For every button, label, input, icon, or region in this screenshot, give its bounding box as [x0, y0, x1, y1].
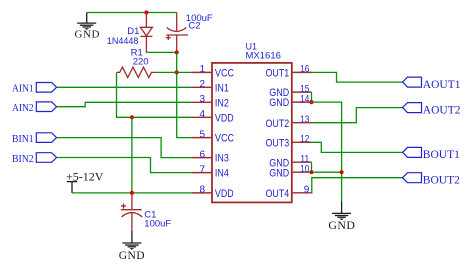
wire	[87, 12, 177, 14]
svg-text:VCC: VCC	[215, 133, 234, 145]
svg-text:1N4448: 1N4448	[107, 36, 138, 47]
pin 9 OUT4	[292, 192, 312, 194]
svg-text:VCC: VCC	[215, 68, 234, 80]
wire	[312, 178, 403, 193]
resistor R1 220	[117, 67, 157, 78]
svg-text:IN1: IN1	[215, 82, 229, 94]
pin 14 GND	[292, 101, 312, 103]
svg-text:MX1616: MX1616	[246, 51, 281, 62]
node junction D1 top / GND rail	[144, 10, 148, 14]
svg-text:AOUT2: AOUT2	[423, 104, 461, 116]
svg-text:OUT1: OUT1	[266, 68, 290, 80]
port connector BIN1	[36, 133, 56, 143]
svg-text:220: 220	[133, 56, 149, 67]
svg-text:3: 3	[200, 94, 206, 105]
wire	[312, 108, 403, 123]
svg-text:8: 8	[200, 185, 206, 196]
node junction pin 10 GND	[309, 170, 313, 174]
svg-text:GND: GND	[119, 250, 145, 262]
svg-text:BOUT1: BOUT1	[423, 149, 460, 161]
wire	[146, 51, 176, 53]
pin 11 GND	[292, 161, 312, 163]
wire	[131, 117, 133, 193]
pin 12 OUT3	[292, 141, 312, 143]
svg-text:14: 14	[300, 94, 309, 105]
svg-text:VDD: VDD	[215, 188, 234, 200]
port connector BIN2	[36, 153, 56, 163]
pin 6 IN3	[192, 157, 212, 159]
svg-text:OUT3: OUT3	[266, 137, 290, 149]
wire	[312, 171, 342, 173]
wire	[57, 102, 193, 106]
svg-text:7: 7	[200, 164, 206, 175]
svg-text:OUT2: OUT2	[266, 118, 290, 130]
svg-text:VDD: VDD	[215, 112, 234, 124]
svg-text:BIN1: BIN1	[12, 133, 34, 145]
svg-text:AIN2: AIN2	[12, 102, 34, 114]
capacitor C1 100uF	[121, 193, 142, 231]
port connector BOUT2	[403, 173, 422, 183]
svg-text:1: 1	[200, 64, 206, 75]
svg-text:4: 4	[200, 109, 206, 120]
wire	[311, 92, 313, 102]
IC U1 MX1616 box	[212, 63, 292, 203]
pin 5 VCC	[192, 137, 212, 139]
wire	[57, 158, 193, 173]
node junction VDD row branch	[130, 115, 134, 119]
pin 3 IN2	[192, 101, 212, 103]
wire	[312, 72, 403, 82]
svg-text:BIN2: BIN2	[12, 153, 34, 165]
svg-text:GND: GND	[74, 28, 100, 40]
pin 15 GND	[292, 91, 312, 93]
ground GND bottom-left symbol	[122, 231, 141, 247]
svg-text:BOUT2: BOUT2	[423, 175, 460, 187]
wire	[72, 192, 192, 194]
port connector AIN2	[36, 102, 56, 112]
svg-text:C2: C2	[188, 21, 200, 32]
wire	[117, 72, 193, 117]
svg-text:9: 9	[304, 185, 310, 196]
capacitor C2 100uF	[166, 13, 188, 53]
svg-text:13: 13	[300, 115, 309, 126]
wire	[312, 142, 403, 152]
svg-text:10: 10	[300, 164, 309, 175]
port connector AIN1	[36, 83, 56, 93]
svg-text:AOUT1: AOUT1	[423, 79, 461, 91]
pin 8 VDD	[192, 192, 212, 194]
node junction GND net tee	[340, 170, 344, 174]
wire	[177, 52, 192, 137]
svg-text:2: 2	[200, 79, 206, 90]
wire	[156, 71, 192, 73]
svg-text:6: 6	[200, 149, 206, 160]
svg-text:12: 12	[300, 134, 309, 145]
port connector AOUT2	[403, 103, 422, 113]
pin 16 OUT1	[292, 71, 312, 73]
wire	[57, 86, 193, 88]
pin 2 IN1	[192, 86, 212, 88]
diode D1 1N4448	[140, 13, 152, 53]
svg-text:GND: GND	[269, 97, 289, 109]
svg-text:GND: GND	[328, 218, 355, 232]
svg-text:AIN1: AIN1	[12, 83, 34, 95]
wire	[57, 138, 193, 158]
svg-text:GND: GND	[269, 167, 289, 179]
pin 10 GND	[292, 171, 312, 173]
pin 13 OUT2	[292, 122, 312, 124]
node junction C2 bottom	[175, 50, 179, 54]
svg-text:OUT4: OUT4	[266, 188, 290, 200]
ground GND top-left symbol	[77, 13, 96, 27]
port connector AOUT1	[403, 77, 422, 87]
node junction C1 top	[130, 191, 134, 195]
wire	[311, 162, 313, 172]
ground GND bottom-right symbol	[332, 201, 351, 217]
svg-text:IN4: IN4	[215, 168, 229, 180]
svg-text:5: 5	[200, 129, 206, 140]
pin 7 IN4	[192, 172, 212, 174]
svg-text:16: 16	[300, 64, 309, 75]
node junction pin 14 GND	[309, 100, 313, 104]
svg-text:IN3: IN3	[215, 153, 229, 165]
svg-text:100uF: 100uF	[144, 218, 171, 229]
pin 1 VCC	[192, 71, 212, 73]
pin 4 VDD	[192, 116, 212, 118]
wire	[312, 102, 342, 201]
svg-text:IN2: IN2	[215, 97, 229, 109]
port connector BOUT1	[403, 147, 422, 157]
node junction R1 right / VCC node	[175, 70, 179, 74]
